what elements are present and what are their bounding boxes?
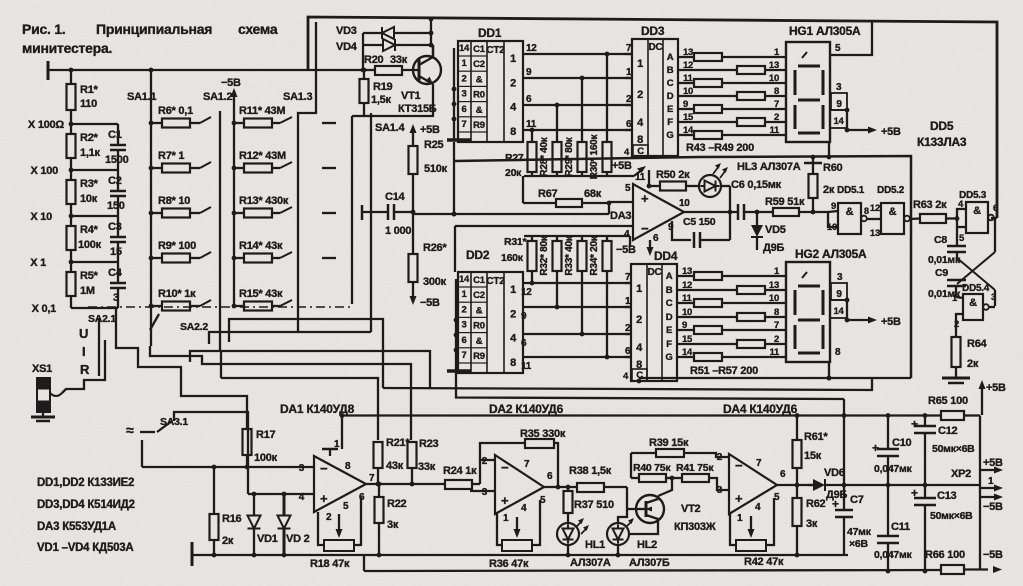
svg-text:&: & xyxy=(846,206,854,218)
svg-text:DD5: DD5 xyxy=(930,119,954,133)
resistor R48 xyxy=(678,112,786,126)
switch SA1.3 xyxy=(283,22,316,332)
svg-text:9: 9 xyxy=(521,311,527,322)
svg-text:6: 6 xyxy=(526,94,532,105)
svg-text:10к: 10к xyxy=(80,193,98,205)
svg-text:R43 –R49 200: R43 –R49 200 xyxy=(686,142,754,154)
resistor R40 xyxy=(631,453,682,482)
svg-text:&: & xyxy=(476,105,483,116)
wire VD left xyxy=(362,33,364,70)
svg-text:R0: R0 xyxy=(473,321,485,332)
svg-text:1: 1 xyxy=(503,513,509,524)
node X100 xyxy=(31,165,74,177)
svg-text:8: 8 xyxy=(774,307,779,318)
svg-text:R23: R23 xyxy=(419,438,439,450)
svg-text:−5В: −5В xyxy=(420,297,440,309)
svg-text:R36 47к: R36 47к xyxy=(489,558,529,570)
label U I R xyxy=(79,318,99,377)
svg-text:9: 9 xyxy=(836,289,842,300)
svg-text:R1*: R1* xyxy=(80,84,99,96)
power +5V HG2 xyxy=(847,316,901,328)
wire R31-R34 drops xyxy=(530,271,610,359)
svg-text:DA3 К553УД1А: DA3 К553УД1А xyxy=(37,521,116,533)
svg-text:15: 15 xyxy=(110,246,122,258)
wire staircase A xyxy=(116,307,247,429)
svg-text:R18 47к: R18 47к xyxy=(310,558,350,570)
power +5V right xyxy=(979,380,1007,415)
resistor R35 feedback xyxy=(480,428,566,487)
resistor R47 xyxy=(678,99,786,113)
wire bottom frame B1 xyxy=(383,378,872,390)
switch SA1.2 xyxy=(203,91,232,350)
svg-text:2: 2 xyxy=(636,314,642,326)
svg-text:1: 1 xyxy=(510,284,516,296)
svg-text:+: + xyxy=(911,417,918,431)
svg-text:R17: R17 xyxy=(256,429,276,441)
svg-text:3: 3 xyxy=(461,89,466,100)
resistor R23 xyxy=(408,438,439,484)
wire bottom rail xyxy=(364,555,941,571)
resistor R3 xyxy=(67,170,99,216)
svg-text:8: 8 xyxy=(774,86,779,97)
svg-text:R2*: R2* xyxy=(80,132,99,144)
svg-text:Х 100Ω: Х 100Ω xyxy=(28,119,64,131)
wire DA2 out xyxy=(544,485,577,490)
svg-text:ХS1: ХS1 xyxy=(32,363,52,375)
resistor R27 xyxy=(505,142,537,179)
wire DD1 out 6 xyxy=(523,94,632,105)
resistor R9 xyxy=(151,240,211,263)
svg-text:HL2: HL2 xyxy=(637,539,657,551)
svg-text:C2: C2 xyxy=(473,59,485,70)
svg-text:150: 150 xyxy=(107,200,125,212)
wire DA1 pin3 xyxy=(142,440,314,469)
svg-text:&: & xyxy=(969,297,977,309)
svg-text:+5В: +5В xyxy=(881,316,901,328)
svg-text:10: 10 xyxy=(769,293,779,304)
svg-text:3: 3 xyxy=(836,82,842,93)
op-amp DA4 xyxy=(717,452,786,524)
wire right edge xyxy=(979,416,981,570)
svg-text:R64: R64 xyxy=(967,338,988,350)
svg-text:11: 11 xyxy=(635,172,646,183)
svg-text:R34* 20к: R34* 20к xyxy=(589,235,600,275)
power -5V DA3 xyxy=(616,240,654,256)
svg-text:8: 8 xyxy=(510,126,516,138)
svg-text:14: 14 xyxy=(833,116,844,127)
svg-text:510к: 510к xyxy=(424,163,448,175)
capacitor C12 xyxy=(911,413,975,485)
svg-text:B: B xyxy=(666,285,673,296)
IC DD3 C cell xyxy=(624,145,648,158)
svg-text:6: 6 xyxy=(993,203,998,214)
svg-text:C14: C14 xyxy=(385,191,406,203)
resistor R31 xyxy=(501,236,537,271)
svg-text:C11: C11 xyxy=(891,521,910,533)
svg-text:−5В: −5В xyxy=(616,244,636,256)
resistor R38 xyxy=(569,465,627,492)
DD4 segment B xyxy=(666,280,692,296)
svg-text:R4*: R4* xyxy=(80,224,99,236)
svg-text:20к: 20к xyxy=(505,167,522,179)
resistor R16 xyxy=(210,467,242,557)
svg-text:1М: 1М xyxy=(80,285,95,297)
svg-text:C6 0,15мк: C6 0,15мк xyxy=(731,179,782,191)
svg-text:≈: ≈ xyxy=(126,422,134,438)
svg-text:R3*: R3* xyxy=(80,178,99,190)
svg-text:R14* 43к: R14* 43к xyxy=(239,240,283,252)
diode VD6 xyxy=(808,467,847,501)
svg-text:9: 9 xyxy=(836,99,842,110)
resistor R34 xyxy=(589,235,612,275)
svg-text:DA4 К140УД6: DA4 К140УД6 xyxy=(723,402,798,416)
capacitor C7 xyxy=(832,485,872,555)
svg-text:1: 1 xyxy=(334,439,340,450)
resistor R15 xyxy=(234,288,292,311)
svg-text:R59 51к: R59 51к xyxy=(765,196,805,208)
svg-text:DD1,DD2 К133ИЕ2: DD1,DD2 К133ИЕ2 xyxy=(37,477,134,489)
DD3 segment E xyxy=(667,99,688,115)
svg-text:−5В: −5В xyxy=(983,549,1003,561)
svg-text:R24 1к: R24 1к xyxy=(443,465,477,477)
power +5V HG1 xyxy=(847,126,901,138)
svg-text:2: 2 xyxy=(326,512,332,523)
resistor R64 xyxy=(952,337,988,370)
svg-text:C1: C1 xyxy=(108,129,122,141)
svg-text:DC: DC xyxy=(648,267,662,278)
LED HL2 xyxy=(607,487,670,569)
capacitor C13 xyxy=(911,485,973,573)
svg-text:5: 5 xyxy=(343,501,349,512)
display HG2 AL305A xyxy=(786,247,867,362)
svg-text:R10* 1к: R10* 1к xyxy=(158,288,196,300)
svg-text:8: 8 xyxy=(864,206,869,216)
resistor R30 xyxy=(589,134,612,180)
wire bottom frame B2 xyxy=(456,372,844,399)
svg-text:13: 13 xyxy=(769,280,779,291)
svg-text:R: R xyxy=(80,362,90,377)
svg-text:C7: C7 xyxy=(850,494,864,506)
svg-text:C1: C1 xyxy=(473,275,486,286)
svg-text:Х 10: Х 10 xyxy=(30,211,52,223)
svg-text:3: 3 xyxy=(461,320,466,331)
svg-text:R9: R9 xyxy=(473,351,485,362)
resistor R21 xyxy=(374,437,411,484)
svg-text:A: A xyxy=(667,52,674,63)
wire R31-R34 tops xyxy=(532,236,607,241)
wire DD2 out 11 xyxy=(521,346,631,372)
svg-text:B: B xyxy=(667,65,674,76)
capacitor C3 xyxy=(108,216,126,262)
DD3 segment G xyxy=(666,125,694,141)
potentiometer R36 xyxy=(489,500,540,570)
svg-text:13: 13 xyxy=(870,228,880,239)
svg-text:DC: DC xyxy=(649,42,663,53)
svg-text:C: C xyxy=(666,298,673,309)
label C10 value xyxy=(874,463,913,475)
svg-text:DD1: DD1 xyxy=(478,26,502,40)
svg-text:3: 3 xyxy=(113,292,119,304)
resistor R14 xyxy=(234,240,292,263)
resistor R5 xyxy=(67,262,99,308)
svg-text:SA1.2: SA1.2 xyxy=(203,91,232,103)
node X100ohm xyxy=(28,119,73,131)
svg-text:+: + xyxy=(501,493,509,508)
wire DD1 out 9 xyxy=(523,67,632,78)
resistor R10 xyxy=(151,288,211,311)
resistor R66 xyxy=(925,549,1002,574)
wire DD2 to DA3 inverting xyxy=(455,226,633,272)
svg-text:Д9Б: Д9Б xyxy=(763,242,784,254)
svg-text:VT1: VT1 xyxy=(401,90,421,102)
wire DD3 left stubs xyxy=(625,54,632,130)
diode VD1 xyxy=(248,494,278,557)
capacitor C8 xyxy=(928,219,966,267)
wire DD5.4 pin2 xyxy=(956,314,963,337)
svg-text:АЛ307А: АЛ307А xyxy=(570,557,611,569)
resistor R13 xyxy=(234,195,292,218)
svg-text:Х 1: Х 1 xyxy=(30,257,46,269)
resistor R49 xyxy=(678,125,786,139)
svg-text:R13* 430к: R13* 430к xyxy=(239,195,289,207)
resistor R4 xyxy=(67,216,102,262)
svg-text:R60: R60 xyxy=(823,162,843,174)
svg-text:VD1: VD1 xyxy=(257,533,278,545)
IC DD2 K133IE2 xyxy=(458,248,523,373)
svg-text:6: 6 xyxy=(521,338,527,349)
gate DD5.3 xyxy=(955,190,998,244)
svg-text:D: D xyxy=(666,312,673,323)
svg-text:1500: 1500 xyxy=(105,154,129,166)
power -5V feed SA1.2 xyxy=(221,77,241,123)
DD3 segment F xyxy=(667,112,694,128)
svg-text:DD5.1: DD5.1 xyxy=(837,185,865,196)
resistor R20 xyxy=(363,54,419,75)
svg-text:R31*: R31* xyxy=(504,236,528,248)
LED HL1 xyxy=(557,518,611,569)
wire switch line E xyxy=(190,351,430,388)
label R51-R57 xyxy=(690,365,758,377)
svg-text:4: 4 xyxy=(521,503,527,514)
IC DD4 K514ID2 xyxy=(631,249,678,381)
HG2 right pins xyxy=(830,272,849,322)
switch SA2.1 xyxy=(88,313,159,330)
node X1 xyxy=(30,257,73,269)
svg-text:110: 110 xyxy=(80,98,97,110)
wire DD2 out 9 xyxy=(521,296,631,322)
svg-text:R51 –R57 200: R51 –R57 200 xyxy=(690,365,758,377)
svg-text:F: F xyxy=(666,339,672,350)
resistor R26 xyxy=(409,242,448,288)
svg-text:R29* 80к: R29* 80к xyxy=(564,136,575,176)
svg-text:×6В: ×6В xyxy=(849,538,868,550)
svg-text:&: & xyxy=(889,206,897,218)
potentiometer R18 xyxy=(310,497,361,570)
svg-text:HL1: HL1 xyxy=(585,539,605,551)
svg-text:7: 7 xyxy=(756,458,762,469)
wire DD4 left stubs xyxy=(625,283,631,357)
capacitor C5 xyxy=(672,216,730,248)
resistor R50 xyxy=(647,169,699,191)
svg-text:2: 2 xyxy=(717,452,723,463)
resistor R53 xyxy=(677,293,786,307)
DD4 segment C xyxy=(666,293,693,309)
svg-text:R11* 43М: R11* 43М xyxy=(239,105,285,117)
svg-text:2: 2 xyxy=(774,112,779,123)
svg-text:&: & xyxy=(476,336,483,347)
resistor R45 xyxy=(678,73,786,87)
DD3 segment B xyxy=(667,60,693,76)
svg-text:R15* 43к: R15* 43к xyxy=(239,288,283,300)
svg-text:3: 3 xyxy=(837,272,843,283)
wire DA1 pin4 xyxy=(248,492,314,497)
svg-text:&: & xyxy=(476,305,483,316)
svg-text:ХР2: ХР2 xyxy=(951,468,971,480)
svg-text:C12: C12 xyxy=(938,425,958,437)
svg-text:5: 5 xyxy=(835,43,841,54)
resistor R12 xyxy=(234,150,292,173)
wire R27-R30 risers xyxy=(530,52,610,142)
svg-text:4: 4 xyxy=(755,502,761,513)
svg-text:R26*: R26* xyxy=(423,242,447,254)
svg-text:R6* 0,1: R6* 0,1 xyxy=(158,105,193,117)
resistor R55 xyxy=(677,320,786,334)
cross wiring DD5 xyxy=(957,218,995,306)
svg-text:D: D xyxy=(667,91,674,102)
svg-text:−5В: −5В xyxy=(221,77,241,89)
resistor R41 xyxy=(676,462,729,490)
resistor R62 xyxy=(793,485,826,557)
op-amp DA1 xyxy=(299,439,375,523)
label R43-R49 xyxy=(686,142,754,154)
svg-text:&: & xyxy=(476,74,483,85)
svg-text:+5В: +5В xyxy=(983,457,1003,469)
IC DD3 K514ID2 xyxy=(632,24,678,156)
svg-text:R67: R67 xyxy=(538,188,558,200)
resistor R25 xyxy=(409,139,448,175)
resistor R65 xyxy=(928,395,980,420)
svg-text:U: U xyxy=(79,326,88,341)
svg-text:1 000: 1 000 xyxy=(385,225,411,237)
svg-text:68к: 68к xyxy=(584,188,602,200)
svg-text:R42 47к: R42 47к xyxy=(744,556,784,568)
DD4 segment F xyxy=(666,334,693,350)
svg-text:100к: 100к xyxy=(78,239,102,251)
svg-text:F: F xyxy=(667,117,673,128)
wire DD1 out 11 xyxy=(523,119,632,130)
svg-text:12: 12 xyxy=(521,287,532,298)
svg-text:2к: 2к xyxy=(222,535,234,547)
wire HL3 to output xyxy=(721,186,732,240)
wire SA1.4 drop xyxy=(370,113,372,332)
wire C14 to DA3 xyxy=(413,202,633,216)
svg-text:R9: R9 xyxy=(473,120,485,131)
DD4 segment D xyxy=(666,307,692,323)
node X10 xyxy=(30,211,73,223)
potentiometer R42 xyxy=(730,498,784,568)
wire lower frame xyxy=(639,376,911,381)
svg-text:3: 3 xyxy=(299,463,305,474)
wire XS1 hook xyxy=(50,340,105,396)
wire DD1 to input line xyxy=(452,142,457,216)
IC DD4 C cell xyxy=(623,369,647,383)
svg-text:HL3 АЛ307А: HL3 АЛ307А xyxy=(737,161,801,173)
DD4 segment G xyxy=(665,347,693,363)
resistor R46 xyxy=(678,86,786,100)
resistor R8 xyxy=(151,195,211,218)
svg-text:SA2.2: SA2.2 xyxy=(180,321,208,333)
svg-text:R38 1,5к: R38 1,5к xyxy=(569,465,612,477)
power +5V SA1.4 xyxy=(410,124,441,146)
resistor R37 xyxy=(564,487,614,523)
svg-text:47мк: 47мк xyxy=(847,526,872,538)
svg-text:+: + xyxy=(641,191,649,206)
svg-text:300к: 300к xyxy=(423,276,447,288)
wire +5V rail xyxy=(341,414,941,416)
svg-text:R28* 40к: R28* 40к xyxy=(539,136,550,176)
svg-text:6: 6 xyxy=(461,335,466,346)
resistor R19 xyxy=(360,68,393,116)
svg-text:R66 100: R66 100 xyxy=(925,549,965,561)
svg-text:E: E xyxy=(666,325,672,336)
svg-text:R39 15к: R39 15к xyxy=(649,437,689,449)
svg-text:10: 10 xyxy=(769,73,779,84)
svg-text:+5В: +5В xyxy=(612,160,632,172)
svg-text:0,047мк: 0,047мк xyxy=(874,549,913,561)
gate DD5.4 xyxy=(952,283,996,330)
HG2 bottom stub xyxy=(827,347,841,380)
label DD5 xyxy=(917,119,967,149)
resistor R22 xyxy=(375,484,407,557)
svg-text:R61*: R61* xyxy=(804,431,828,443)
svg-text:схема: схема xyxy=(238,21,278,37)
capacitor C9 xyxy=(928,267,966,300)
svg-text:SA1.4: SA1.4 xyxy=(375,122,405,134)
svg-text:8: 8 xyxy=(345,461,351,472)
svg-text:160к: 160к xyxy=(501,252,524,264)
svg-text:2: 2 xyxy=(482,456,488,467)
svg-text:14: 14 xyxy=(459,43,470,54)
svg-text:R25: R25 xyxy=(424,139,444,151)
svg-text:G: G xyxy=(665,352,672,363)
resistor R57 xyxy=(677,347,786,361)
svg-text:50мк×6В: 50мк×6В xyxy=(932,443,975,455)
op-amp DA2 xyxy=(482,455,553,524)
wire R31-R34 rail xyxy=(524,236,630,247)
svg-text:1,1к: 1,1к xyxy=(80,147,101,159)
connector XP2 xyxy=(951,457,1003,513)
svg-text:14: 14 xyxy=(833,306,844,317)
svg-text:+5В: +5В xyxy=(986,382,1006,394)
switch SA2.2 xyxy=(180,321,221,378)
DD4 segment E xyxy=(666,320,687,336)
svg-text:11: 11 xyxy=(521,361,532,372)
svg-text:11: 11 xyxy=(769,125,780,136)
resistor R56 xyxy=(677,334,786,348)
resistor R39 xyxy=(631,437,729,457)
capacitor C10 xyxy=(872,413,912,485)
diode VD3 xyxy=(336,25,433,39)
svg-text:7: 7 xyxy=(774,320,779,331)
svg-text:R19: R19 xyxy=(373,81,393,93)
svg-text:8: 8 xyxy=(510,357,516,369)
svg-text:0,047мк: 0,047мк xyxy=(874,463,913,475)
gate DD5.1 xyxy=(827,185,869,234)
wire DA4 out xyxy=(777,483,813,488)
wire top frame xyxy=(308,17,997,218)
svg-text:−: − xyxy=(320,461,328,476)
svg-text:DD3,DD4 К514ИД2: DD3,DD4 К514ИД2 xyxy=(37,499,135,511)
